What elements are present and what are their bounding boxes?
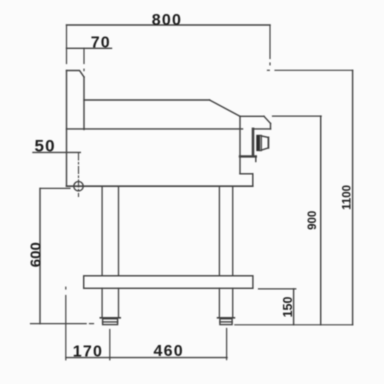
svg-text:600: 600 — [27, 242, 44, 267]
svg-text:800: 800 — [152, 12, 182, 29]
svg-text:70: 70 — [91, 34, 111, 51]
svg-text:150: 150 — [281, 297, 295, 318]
svg-text:50: 50 — [35, 136, 56, 155]
svg-text:170: 170 — [73, 344, 103, 361]
svg-text:900: 900 — [307, 211, 319, 230]
svg-text:460: 460 — [154, 343, 184, 360]
svg-text:1100: 1100 — [341, 185, 353, 210]
